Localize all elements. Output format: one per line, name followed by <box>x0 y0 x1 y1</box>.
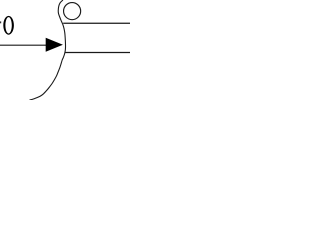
arc (curved outline) <box>30 0 66 100</box>
arrowhead <box>46 38 63 52</box>
wire (upper) <box>63 22 130 24</box>
value label digit 0 (serif zero drawn as two-ellipse path) <box>3 16 14 35</box>
terminal circle <box>64 3 81 20</box>
wire (lower) <box>65 52 130 54</box>
wire (arrow shaft) <box>0 44 47 46</box>
value label minus sign (cropped at left edge) <box>0 21 1 23</box>
